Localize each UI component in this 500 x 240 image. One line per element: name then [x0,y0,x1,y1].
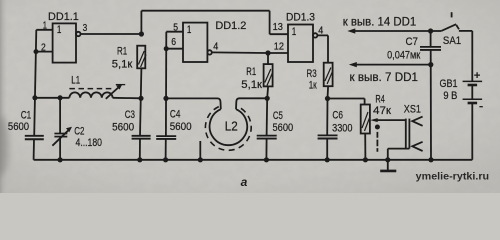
svg-text:DD1.3: DD1.3 [286,11,315,23]
svg-text:1к: 1к [309,79,317,91]
svg-text:а: а [241,175,248,189]
wire R3 bottom [327,86,330,98]
XS1 upper contact [412,117,422,126]
wire XS1 lower to ground stub [388,149,410,160]
R4 wiper mechanical dot and dashed link [375,125,380,130]
svg-text:5600: 5600 [170,121,192,133]
battery GB1 cells [463,80,483,82]
inductor L1 winding [69,92,112,97]
wire R2 top [267,53,269,64]
L2 shield dashed circle [205,107,251,151]
capacitor C7 top lead [430,31,432,47]
svg-text:DD1.1: DD1.1 [48,11,79,23]
svg-text:DD1.2: DD1.2 [215,20,246,32]
wire C7 bottom vertical to rail [430,50,432,160]
wire R2 bottom [266,86,269,98]
svg-text:0,047мк: 0,047мк [387,50,420,62]
svg-text:C4: C4 [170,108,181,120]
svg-text:C1: C1 [21,110,32,122]
wire R4 bottom [364,134,366,160]
svg-text:5: 5 [173,23,178,34]
capacitor C3 plates [132,135,151,137]
svg-text:R1: R1 [246,66,256,78]
C2 trimmer arrow [52,130,68,145]
wire L1 right to R1 line [113,97,141,100]
wire R1 bottom to C3 [140,68,141,135]
wire riser from top rail to DD1.3 pin 13 [269,11,271,35]
svg-text:47к: 47к [373,105,391,117]
svg-text:12: 12 [274,42,285,53]
svg-text:R4: R4 [375,94,384,106]
node pin6 junction [164,46,169,51]
DD1.1 inversion bubble pin 3 [76,32,80,36]
svg-text:6: 6 [171,37,176,48]
svg-text:2: 2 [41,42,46,53]
wire DD1.2 input vertical [165,32,167,136]
svg-text:5600: 5600 [8,121,29,133]
svg-text:5600: 5600 [273,122,294,134]
svg-text:1: 1 [57,24,62,36]
node DD1.2 out / R2 / pin12 [265,50,270,55]
node R1/L1/C3 junction [138,96,143,101]
bottom rail wire [34,159,473,161]
wire DD1.1 output pin 3 [81,33,142,35]
svg-text:3300: 3300 [332,122,352,134]
battery plus sign [474,72,480,78]
resistor R3 body [324,63,333,86]
node DD1.1 output / R1 top [139,31,144,36]
capacitor C5 plates [257,135,277,137]
wire right vertical bottom [471,103,473,160]
capacitor C1 plates [25,135,44,137]
capacitor C2 plates (trimmer) [54,133,67,135]
svg-text:5,1к: 5,1к [241,79,262,91]
svg-text:к выв. 7 DD1: к выв. 7 DD1 [350,72,419,84]
resistor R1 body [137,46,145,69]
wire DD1.1 pin 2 [36,51,53,53]
wire C4 bottom [165,139,167,160]
svg-text:1: 1 [292,26,297,38]
R4 wiper arrow and wire to XS1 [370,118,378,122]
capacitor C4 plates [156,135,176,137]
wire right vertical top [471,31,473,81]
svg-text:4: 4 [213,42,218,53]
svg-text:5600: 5600 [112,121,134,133]
node tank top left [32,95,37,100]
svg-text:C2: C2 [74,126,84,138]
logic gate DD1.3 body [288,25,313,63]
switch SA1 [431,30,442,32]
logic gate DD1.2 body [183,23,207,62]
top rail wire [141,10,269,12]
node R3/C6/R4 junction [325,96,330,101]
capacitor C6 plates [318,134,338,136]
wire junction to R4 top [328,99,365,105]
wire C6 vertical [326,99,328,160]
svg-text:C3: C3 [125,109,135,121]
op-amp U: logic gate DD1.1 body [53,23,76,62]
svg-text:ymelie-rytki.ru: ymelie-rytki.ru [416,171,489,183]
svg-text:C6: C6 [332,110,343,122]
wire L2 right lead [236,98,267,109]
node junction pin2 [34,49,39,54]
svg-text:R3: R3 [307,68,317,80]
rail junction nodes [58,157,63,162]
wire riser from DD1.1 output node to top rail [140,11,142,34]
wire C3 bottom [139,139,141,160]
node R2/L2/C5 junction [265,96,270,101]
battery minus tick [479,106,482,108]
wire DD1.1 pin 1 [36,29,52,31]
svg-text:1: 1 [187,24,192,36]
svg-text:C5: C5 [273,110,283,122]
svg-text:3: 3 [83,23,88,34]
node pin7 wire junction [428,62,433,67]
XS1 lower contact [412,142,422,151]
svg-text:L2: L2 [225,120,238,134]
svg-text:4: 4 [318,26,323,37]
svg-text:4...180: 4...180 [76,137,103,149]
wire DD1.3 pin 13 [270,33,288,35]
L1 adjustable core dashed line [69,88,114,90]
svg-text:1: 1 [43,21,48,32]
connector XS1 body lines [405,119,407,149]
wire DD1.2 output pin 4 [212,51,268,54]
wire L2 left lead [166,98,221,109]
wire to pin 7 DD1 (arrow) [356,64,431,66]
wire to DD1.3 pin 12 [268,52,288,54]
wire DD1.3 output [317,35,328,62]
wire DD1.2 pin 6 [166,48,183,50]
svg-text:GB1: GB1 [440,78,458,90]
node C2 branch [58,95,63,100]
wire tank horizontal to L1 [35,97,70,99]
svg-text:C7: C7 [406,36,419,48]
svg-text:SA1: SA1 [443,35,461,47]
DD1.2 inversion bubble pin 4 [207,50,211,54]
inductor L2 coil circle [210,109,248,145]
wire DD1.2 pin 5 [166,31,183,33]
node L2 left junction [163,96,168,101]
wire to pin 14 DD1 (arrow) [354,30,431,32]
resistor R4 body (trimmer) [361,105,370,134]
svg-text:R1: R1 [117,46,127,58]
svg-text:9 В: 9 В [443,90,457,102]
wire left vertical (pins 1,2 down to tank) [34,30,36,136]
node ground stub on rail [385,157,390,162]
wire C1 bottom [33,139,35,160]
svg-text:5,1к: 5,1к [112,58,133,70]
capacitor C7 plates [420,46,441,48]
wire C2 branch vertical [59,98,61,160]
svg-text:к выв. 14 DD1: к выв. 14 DD1 [343,16,417,28]
resistor R2 body [264,64,273,86]
L1 trimmer arrow [106,87,119,99]
svg-text:L1: L1 [71,75,80,87]
node SA1/C7 junction [428,28,433,33]
L2 shield ground tail [199,141,201,160]
svg-text:13: 13 [273,22,284,33]
ground chassis symbol [387,160,389,171]
DD1.3 inversion bubble [313,33,317,37]
wire C5 vertical [265,98,268,160]
svg-text:XS1: XS1 [404,104,421,116]
